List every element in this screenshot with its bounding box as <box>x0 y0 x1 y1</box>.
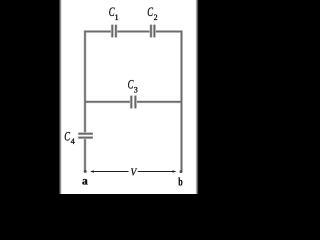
wire halo: top segment left corner to C1 <box>85 32 112 103</box>
left bar soft edge <box>59 0 62 194</box>
capacitor C2 plates <box>150 25 152 38</box>
voltage arrow right half <box>138 170 177 173</box>
svg-text:b: b <box>178 177 182 189</box>
wire halo: top segment C2 to right corner <box>155 32 182 172</box>
wire: left vertical C4 to node a <box>84 138 86 171</box>
capacitor halo C4 plates <box>78 132 93 135</box>
node a dot <box>84 170 87 173</box>
capacitor C4 plates <box>78 133 93 135</box>
wire halo: left vertical C4 to node a <box>84 138 87 171</box>
capacitor halo C3 plates <box>130 96 133 109</box>
node b dot <box>180 170 183 173</box>
capacitor halo C1 plates <box>111 25 114 38</box>
capacitor halo C2 plates <box>150 25 153 38</box>
capacitor C1 plates <box>111 25 113 38</box>
wire halo: top segment C1 to C2 <box>117 30 151 33</box>
wire: C3 to right wire <box>136 101 181 103</box>
svg-text:a: a <box>82 176 88 188</box>
voltage arrow left half <box>90 170 128 173</box>
wire: top segment C2 to right corner <box>155 32 182 172</box>
wire halo: left vertical between middle node and C4 <box>84 102 87 133</box>
wire halo: middle left wire to C3 <box>85 100 131 103</box>
wire: middle left wire to C3 <box>85 101 131 103</box>
wire: top segment C1 to C2 <box>117 31 151 33</box>
capacitor C3 plates <box>130 96 132 109</box>
wire: left vertical between middle node and C4 <box>84 102 86 133</box>
white video frame area <box>60 0 196 194</box>
right bar soft edge <box>196 0 199 194</box>
wire: top segment left corner to C1 <box>85 32 112 103</box>
wire halo: C3 to right wire <box>136 100 181 103</box>
